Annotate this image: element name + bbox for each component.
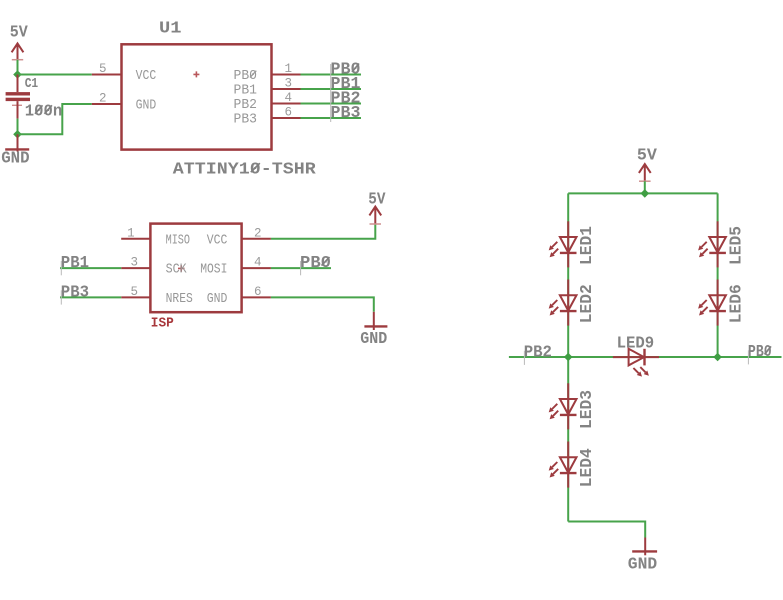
svg-text:PB0: PB0	[748, 343, 772, 362]
svg-text:3: 3	[285, 77, 293, 91]
pin 4 stub	[242, 267, 271, 269]
pin 1 stub	[121, 238, 150, 240]
svg-text:PB3: PB3	[331, 104, 361, 123]
svg-text:PB2: PB2	[524, 343, 552, 362]
svg-text:C1: C1	[25, 76, 39, 92]
svg-text:100n: 100n	[25, 102, 62, 121]
ground symbol lead	[17, 134, 19, 151]
svg-text:5V: 5V	[368, 190, 386, 209]
pin 4 stub	[272, 103, 301, 105]
wire net PB3	[60, 296, 121, 298]
svg-text:LED3: LED3	[578, 390, 597, 429]
svg-text:1: 1	[127, 226, 135, 240]
junction	[13, 130, 22, 139]
pin 2 GND stub	[92, 103, 122, 105]
connector ISP body	[150, 224, 241, 313]
supply 5V origin tick	[370, 223, 382, 225]
svg-text:LED1: LED1	[578, 226, 597, 265]
wire top rail	[568, 192, 717, 194]
LED LED2	[549, 280, 577, 326]
svg-text:4: 4	[254, 256, 262, 270]
LED LED3	[549, 383, 577, 429]
svg-text:PB3: PB3	[234, 112, 258, 128]
wire net PB0	[271, 267, 331, 269]
wire 5V net	[271, 224, 375, 239]
wire net PB0	[301, 74, 362, 76]
IC U1 body	[122, 44, 272, 149]
wire bottom	[568, 522, 645, 538]
LED LED9	[613, 349, 659, 377]
ground symbol bar	[5, 148, 29, 150]
pin 1 stub	[272, 74, 301, 76]
wire net PB2	[301, 103, 362, 105]
svg-text:LED2: LED2	[578, 284, 597, 323]
ground symbol bar	[364, 325, 387, 327]
junction	[641, 189, 650, 198]
svg-text:5: 5	[99, 62, 107, 76]
wire left column lower	[567, 357, 569, 522]
junction	[713, 353, 722, 362]
capacitor C1 plate 1	[6, 92, 30, 95]
svg-text:4: 4	[285, 91, 293, 105]
wire	[17, 119, 19, 135]
wire net PB1	[301, 88, 362, 90]
supply 5V arrow	[369, 207, 381, 224]
svg-text:2: 2	[254, 226, 262, 240]
supply 5V origin tick	[12, 59, 23, 61]
wire GND net	[271, 297, 374, 311]
wire net PB3	[301, 117, 362, 119]
svg-text:SCK: SCK	[166, 262, 187, 278]
wire left column	[567, 193, 569, 357]
svg-text:6: 6	[285, 106, 293, 120]
svg-text:MISO: MISO	[166, 232, 190, 248]
supply 5V arrow	[639, 164, 651, 181]
svg-text:ATTINY10-TSHR: ATTINY10-TSHR	[173, 161, 317, 180]
svg-text:U1: U1	[159, 19, 182, 38]
svg-text:GND: GND	[628, 556, 657, 575]
svg-text:GND: GND	[360, 330, 387, 349]
ground symbol lead	[373, 312, 375, 330]
capacitor C1 top lead	[17, 75, 19, 93]
LED LED4	[549, 442, 577, 488]
label origin tick	[60, 290, 62, 304]
wire GND net	[18, 104, 92, 134]
svg-text:1: 1	[285, 62, 293, 76]
connector ISP origin cross	[178, 265, 185, 272]
svg-text:GND: GND	[207, 291, 228, 307]
label origin ticks	[330, 64, 332, 122]
svg-text:PB3: PB3	[61, 283, 89, 302]
capacitor origin tick	[12, 104, 22, 106]
svg-text:VCC: VCC	[136, 68, 157, 84]
pin 2 stub	[242, 238, 271, 240]
svg-text:LED9: LED9	[617, 334, 655, 353]
wire	[17, 60, 19, 75]
svg-text:5V: 5V	[10, 23, 29, 42]
svg-text:VCC: VCC	[207, 232, 228, 248]
junction	[564, 353, 573, 362]
wire right column	[717, 193, 719, 357]
slashed zero mark pin name PB0	[250, 71, 256, 78]
pin 6 stub	[272, 117, 301, 119]
wire VCC net	[18, 74, 92, 76]
svg-text:MOSI: MOSI	[200, 262, 227, 278]
svg-text:PB0: PB0	[300, 254, 331, 273]
LED LED5	[698, 221, 726, 267]
pin 6 stub	[242, 296, 271, 298]
wire middle rail	[509, 356, 782, 358]
junction	[13, 70, 22, 79]
IC U1 origin cross	[193, 71, 199, 77]
pin 5 VCC stub	[92, 74, 122, 76]
svg-text:ISP: ISP	[151, 315, 174, 331]
svg-text:NRES: NRES	[166, 291, 193, 307]
label origin tick	[747, 350, 749, 364]
capacitor C1 plate 2	[6, 98, 30, 101]
svg-text:PB1: PB1	[61, 254, 89, 273]
supply 5V arrow	[12, 43, 24, 59]
svg-text:GND: GND	[1, 149, 29, 168]
ground symbol lead	[644, 538, 646, 556]
ground symbol bar	[632, 550, 657, 552]
svg-text:5V: 5V	[637, 146, 658, 165]
label origin tick	[300, 261, 302, 275]
svg-text:LED4: LED4	[578, 448, 597, 487]
label origin tick	[60, 261, 62, 275]
pin 3 stub	[121, 267, 150, 269]
slashed zero marks	[35, 64, 771, 355]
pin 3 stub	[272, 88, 301, 90]
supply 5V origin tick	[639, 180, 651, 182]
svg-text:LED6: LED6	[728, 284, 747, 323]
LED LED6	[698, 280, 726, 326]
svg-text:2: 2	[99, 92, 107, 106]
capacitor C1 bottom lead	[17, 101, 19, 119]
LED LED1	[549, 221, 577, 267]
label origin tick	[523, 351, 525, 365]
pin 5 stub	[121, 296, 150, 298]
wire net PB1	[60, 267, 121, 269]
svg-text:LED5: LED5	[728, 226, 747, 265]
wire	[644, 181, 646, 193]
svg-text:5: 5	[130, 285, 138, 299]
svg-text:3: 3	[130, 256, 138, 270]
svg-text:GND: GND	[136, 98, 157, 114]
svg-text:6: 6	[254, 285, 262, 299]
